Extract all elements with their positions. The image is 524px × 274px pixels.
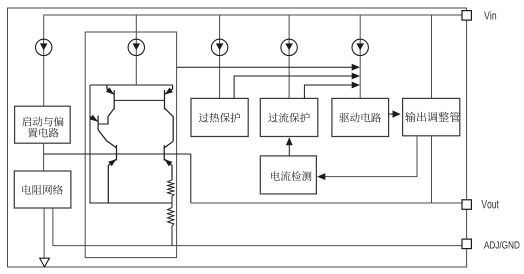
transistor Q2 (right PNP of mirror) xyxy=(165,85,174,141)
wire: rail left leg down to divider tap xyxy=(90,85,172,203)
ground symbol xyxy=(40,258,50,267)
block: thermal protection 过热保护 xyxy=(191,98,248,136)
transistor Q5 (left lower) xyxy=(106,141,116,203)
wire: output transistor to current sense (arrow) xyxy=(325,136,418,177)
block: startup and bias circuit 启动与偏置电路 xyxy=(15,106,71,143)
block: overcurrent protection 过流保护 xyxy=(260,98,318,136)
label ADJ/GND xyxy=(484,241,520,249)
wire: emitter rail of PNP mirror xyxy=(90,84,173,86)
wire: rail to I5 branch xyxy=(359,15,361,98)
inner bias cell enclosure box xyxy=(85,32,176,258)
block: output pass transistor 输出调整管 xyxy=(403,98,460,135)
label 过流保护 xyxy=(268,113,310,123)
current source I3 xyxy=(211,39,227,55)
wire: rail to I2 branch xyxy=(135,15,137,85)
transistor Q3 (left cascode PNP) xyxy=(90,116,106,141)
label 电流检测 xyxy=(271,171,311,181)
wire: overcurrent protection to drive input (arrow) xyxy=(304,85,352,98)
pin terminal Vin xyxy=(462,11,471,21)
current source I1 xyxy=(36,39,52,55)
transistor Q1 (left PNP of mirror) xyxy=(107,85,114,124)
wire: rail to I1 branch xyxy=(43,15,45,106)
wire: Vin rail to output transistor xyxy=(431,15,433,98)
resistor R2 (lower divider section) xyxy=(168,208,174,227)
label 启动与偏 xyxy=(22,117,63,127)
pin terminal Vout xyxy=(462,200,471,210)
label 输出调整管 xyxy=(405,112,460,122)
wire: bias box to resistor network xyxy=(43,143,45,171)
wire: drive circuit to output transistor (arrow) xyxy=(389,113,393,115)
wire: rail to I3 branch xyxy=(219,15,221,98)
block: drive circuit 驱动电路 xyxy=(332,98,389,136)
current source I5 xyxy=(352,39,368,55)
label 过热保护 xyxy=(199,113,241,123)
label 置电路 xyxy=(28,128,59,138)
wire: current sense to overcurrent protection (arrow) xyxy=(288,144,290,156)
label Vin xyxy=(484,11,496,19)
wire: output transistor to Vout line xyxy=(431,136,433,203)
label 电阻网络 xyxy=(22,185,63,195)
transistor Q6 (right lower, with emitter resistor) xyxy=(164,141,173,180)
pin terminal ADJ/GND xyxy=(462,239,471,249)
block: resistor network 电阻网络 xyxy=(14,171,71,208)
current source I2 xyxy=(128,39,144,55)
wire: Vin top rail xyxy=(44,14,462,16)
block: current sense 电流检测 xyxy=(260,156,316,194)
wire: Vout line to Vout pin xyxy=(191,202,462,204)
wire: thermal protection to drive input (arrow) xyxy=(234,76,352,98)
wire: bias cell output to drive input (arrow) xyxy=(177,66,353,68)
label 驱动电路 xyxy=(339,113,381,123)
resistor R1 (Q6 emitter degeneration / divider) xyxy=(168,180,174,197)
wire: bias/base line from bias chain to Q5,Q6 bases and Vout feedback xyxy=(44,154,191,203)
wire: resistor network to ground xyxy=(43,208,45,258)
label Vout xyxy=(481,200,498,208)
wire: Q3 base to Q1 collector xyxy=(98,123,109,125)
wire: Q1-Q2 base link xyxy=(114,99,164,101)
current source I4 xyxy=(281,39,297,55)
wire: resistor network to ADJ/GND line xyxy=(53,208,462,246)
wire: rail to I4 branch xyxy=(288,15,290,98)
